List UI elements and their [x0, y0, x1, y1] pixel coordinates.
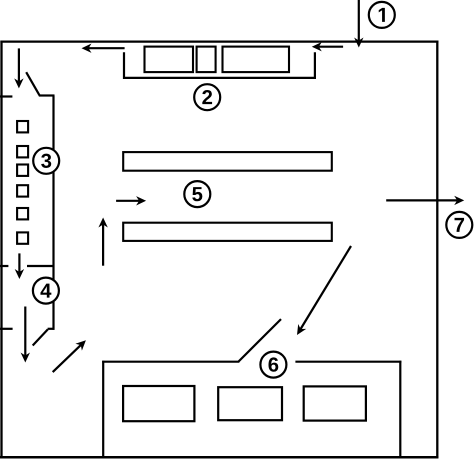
- shelf 1: [123, 152, 332, 171]
- counter rect 3: [223, 47, 290, 73]
- arrow up past shelves: [98, 218, 107, 266]
- step marker 1: [369, 2, 395, 28]
- wall stub left at bottom-left door: [0, 328, 13, 330]
- step marker 3: [33, 148, 59, 174]
- counter rect 2: [197, 47, 216, 73]
- corridor divider wall: [27, 265, 55, 267]
- door leaf (bottom-left door): [33, 329, 48, 345]
- storage rect B: [218, 387, 282, 420]
- arrow right between shelves: [116, 196, 146, 205]
- small square bay 6: [17, 232, 28, 243]
- wall stub left at corridor divider: [0, 265, 8, 267]
- outer wall bottom: [0, 456, 438, 459]
- small square bay 5: [17, 208, 28, 219]
- storage rect A: [123, 386, 194, 421]
- arrow down through corridor divider: [15, 253, 24, 279]
- corridor wall vertical: [52, 96, 54, 330]
- small square bay 3: [17, 165, 28, 176]
- door leaf (top-left door): [26, 72, 39, 95]
- step marker 7: [446, 212, 472, 238]
- small square bay 4: [17, 185, 28, 196]
- door leaf (storage room door): [239, 319, 281, 361]
- checkout counter outline: [124, 52, 315, 78]
- arrow out through right wall (step 7): [386, 196, 464, 205]
- arrow left along top wall: [82, 44, 125, 53]
- small square bay 1: [17, 121, 28, 132]
- arrow diagonal into storage room: [297, 246, 351, 335]
- arrow diagonal up-right from corridor exit: [53, 340, 86, 372]
- step marker 2: [194, 84, 220, 110]
- step marker 4: [33, 278, 59, 304]
- wall segment right of top-left door: [39, 94, 55, 96]
- storage room left wall: [102, 361, 104, 458]
- step marker 6: [260, 352, 286, 378]
- storage rect C: [304, 386, 366, 420]
- storage room top wall right segment: [295, 361, 401, 363]
- arrow in at entrance (step 1): [354, 0, 363, 48]
- counter rect 1: [145, 47, 194, 73]
- arrow left from entrance: [312, 42, 343, 51]
- outer wall left: [0, 41, 2, 459]
- arrow down into corridor: [14, 48, 23, 88]
- wall stub left at entrance door: [0, 95, 12, 97]
- outer wall right: [436, 41, 438, 459]
- arrow down lower corridor: [21, 307, 30, 363]
- small square bay 2: [17, 146, 28, 157]
- outer wall top: [0, 40, 438, 42]
- step marker 5: [184, 181, 210, 207]
- shelf 2: [123, 223, 332, 241]
- storage room top wall left segment: [102, 361, 239, 363]
- wall jog at bottom-left door: [48, 328, 55, 330]
- storage room right wall: [399, 361, 401, 458]
